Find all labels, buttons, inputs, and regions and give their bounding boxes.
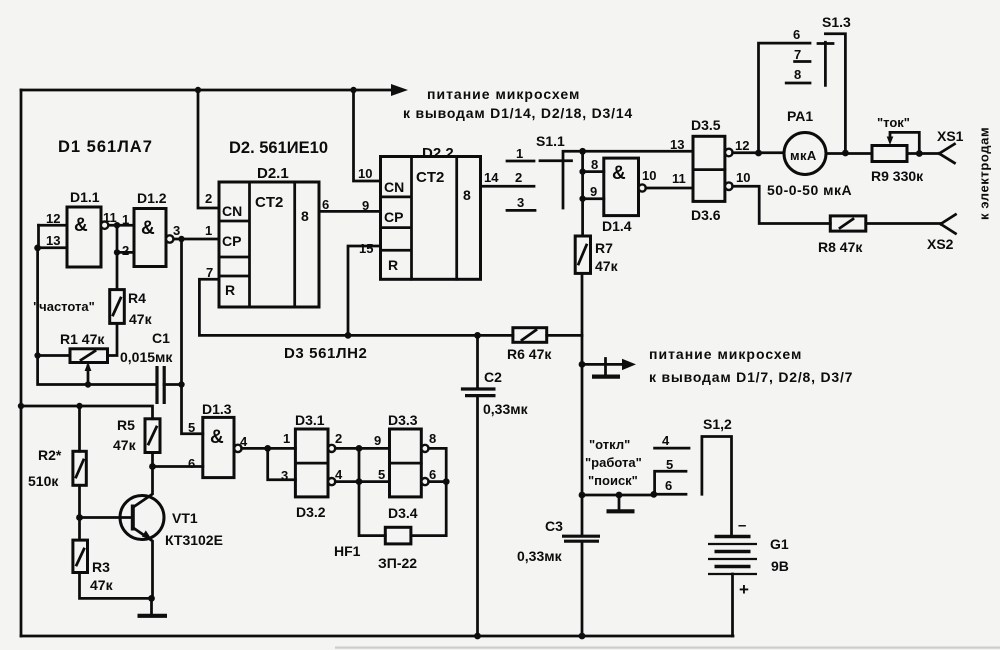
junction S1.2 feed: [579, 492, 586, 499]
counter D2.1: [219, 182, 319, 307]
label питание микросхем top: [403, 86, 633, 121]
junction supply node питание: [579, 361, 586, 368]
VT1 labels: [165, 510, 223, 548]
counter D2.2: [381, 157, 481, 280]
wire R2 top lead: [78, 406, 81, 451]
svg-text:&: &: [210, 427, 224, 448]
wire C1 right to node 3 vertical: [164, 383, 182, 386]
resistor R6 47k: [513, 328, 547, 343]
svg-text:50-0-50 мкА: 50-0-50 мкА: [767, 182, 852, 198]
svg-text:10: 10: [736, 170, 750, 185]
C3 labels: [517, 518, 563, 564]
junction D1.2 pin 2: [114, 249, 120, 255]
junction C2 bottom rail: [474, 633, 481, 640]
junction pins 12-13 tie: [34, 245, 41, 252]
junction ground drop S1.2 wire: [616, 492, 623, 499]
wire to D2.2 pin 10 CN: [354, 90, 381, 181]
D2.1 pin numbers: [205, 191, 329, 280]
svg-text:5: 5: [378, 467, 385, 482]
svg-text:13: 13: [670, 137, 684, 152]
wire D3.1 out to D3.3 pin 9: [335, 447, 389, 450]
wire to D2.1 pin 2 CN: [198, 90, 219, 208]
svg-text:0,33мк: 0,33мк: [483, 401, 529, 417]
wire D1.4 pin 8 input: [583, 170, 604, 173]
wire D2.2 pin 15 stub: [348, 246, 381, 335]
svg-text:5: 5: [666, 457, 673, 472]
svg-text:R4: R4: [128, 290, 146, 306]
junction HF1 left mid: [356, 478, 363, 485]
svg-text:D3.1: D3.1: [295, 412, 325, 428]
svg-text:12: 12: [46, 211, 60, 226]
buzzer HF1: [385, 527, 411, 544]
inverters D3.5 D3.6: [693, 136, 733, 201]
wire D1.4 pin 9 input: [583, 197, 604, 200]
wire R9 to XS1: [907, 152, 939, 155]
wire D3.5 pin 12 to PA1: [733, 151, 784, 154]
wire to D3.2 pin 3: [268, 448, 296, 479]
wire R7 bottom to supply rail: [581, 273, 584, 364]
svg-text:"работа": "работа": [585, 455, 642, 470]
junction R rail pin15: [345, 332, 352, 339]
svg-text:1: 1: [122, 212, 129, 227]
svg-text:D2.2: D2.2: [422, 145, 454, 162]
gate D1.4: [604, 158, 646, 216]
S1.2 position labels: [585, 437, 642, 488]
wire D1.1 input pin 12: [39, 224, 68, 227]
scan edge smudge: [335, 647, 1000, 649]
svg-text:&: &: [74, 215, 88, 236]
resistor R1 47k potentiometer: [70, 349, 108, 363]
wire bottom common rail: [21, 635, 733, 638]
svg-text:к выводам D1/14, D2/18, D3/14: к выводам D1/14, D2/18, D3/14: [403, 105, 633, 121]
S1.2 pin numbers: [662, 433, 673, 493]
wire R2 bottom to R3 top: [78, 485, 81, 540]
switch S1.2: [654, 437, 732, 537]
svg-text:8: 8: [463, 187, 471, 203]
wire PA1 to R9: [826, 152, 872, 155]
wire vertical to R4 top: [116, 225, 119, 289]
svg-text:9В: 9В: [771, 558, 789, 574]
svg-text:"ток": "ток": [877, 115, 910, 130]
svg-text:&: &: [141, 218, 155, 239]
svg-text:6: 6: [188, 456, 195, 471]
wire D1.2 pin 2 stub: [117, 251, 134, 254]
svg-text:2: 2: [205, 191, 212, 206]
junction D1.4 pin 9: [579, 196, 585, 202]
wire D2.1 pin 7 R rail to R6: [199, 279, 513, 335]
resistor R4 47k: [110, 290, 125, 324]
junction R1 left: [34, 352, 40, 358]
resistor R9 330k potentiometer: [872, 132, 919, 161]
D3.5 D3.6 pin numbers: [670, 137, 750, 186]
wire feedback vertical to C1 left: [38, 248, 157, 385]
S1.1 pin numbers: [515, 146, 524, 210]
svg-text:9: 9: [374, 433, 381, 448]
svg-text:D2.1: D2.1: [257, 165, 289, 182]
svg-text:2: 2: [515, 170, 522, 185]
svg-text:11: 11: [672, 171, 686, 186]
ground common bar at VT1 emitter: [138, 614, 168, 618]
svg-text:14: 14: [484, 170, 499, 185]
svg-text:CN: CN: [384, 179, 404, 195]
svg-text:XS2: XS2: [927, 236, 954, 252]
junction collector node: [149, 463, 156, 470]
svg-text:КТ3102Е: КТ3102Е: [165, 532, 223, 548]
svg-text:R7: R7: [595, 240, 613, 256]
wire R8 to XS2: [866, 222, 941, 225]
svg-text:1: 1: [205, 223, 212, 238]
wire D3.3 out right vertical: [429, 448, 447, 481]
svg-text:CT2: CT2: [255, 194, 283, 211]
junction base node: [76, 514, 83, 521]
junction S1.2 pin6: [650, 491, 657, 498]
wire emitter ground stem: [150, 598, 153, 614]
junction pin4 fanout: [264, 445, 271, 452]
svg-text:R6 47к: R6 47к: [507, 346, 552, 362]
wire C2 vertical: [476, 335, 479, 636]
meter PA1 microammeter: [784, 133, 826, 175]
wire left bus to R5 top: [21, 406, 153, 419]
wire D1.1 output to D1.2 pin 1: [108, 224, 134, 227]
svg-text:D3.3: D3.3: [388, 412, 418, 428]
ground common bar S1.2: [607, 509, 635, 513]
junction R rail C2: [474, 332, 481, 339]
svg-text:10: 10: [642, 168, 656, 183]
svg-text:D1.1: D1.1: [70, 189, 100, 205]
junction left bus feed: [18, 403, 24, 409]
wire node3 vertical down to D1.3 pin 5: [182, 239, 203, 434]
wire D2.1 pin 6 to D2.2 pin 9: [319, 210, 381, 213]
connector XS1: [939, 144, 954, 163]
D1.3 pin numbers: [188, 420, 248, 471]
wire HF1 right vertical: [411, 482, 446, 536]
svg-text:3: 3: [517, 195, 524, 210]
junction top bus / D2.1 CN: [195, 87, 201, 93]
transistor VT1: [120, 467, 164, 599]
svg-text:мкА: мкА: [790, 148, 817, 163]
capacitor C3 0.33uF: [562, 536, 600, 541]
R5 labels: [113, 417, 137, 453]
wire D3.4 out: [429, 480, 447, 483]
svg-text:ЗП-22: ЗП-22: [378, 555, 417, 571]
wire left bus: [20, 90, 23, 636]
svg-text:&: &: [612, 163, 626, 184]
wire D1.3 output pin 4: [242, 447, 296, 450]
gate D1.3: [203, 417, 242, 477]
junction node pin3: [178, 236, 184, 242]
svg-text:D1.4: D1.4: [602, 218, 632, 234]
R7 labels: [595, 240, 619, 274]
wire питание arrow mid: [582, 359, 636, 375]
svg-text:2: 2: [122, 243, 129, 258]
wire D1.2 output pin 3 to D2.1 pin 1 CP: [173, 238, 219, 241]
svg-text:8: 8: [301, 208, 309, 224]
wire S1.1 to D3.5 pin 13: [583, 150, 693, 153]
svg-text:47к: 47к: [113, 437, 137, 453]
D1.2 pin numbers: [122, 212, 180, 258]
svg-text:S1.1: S1.1: [536, 133, 565, 149]
inverters D3.1 D3.2: [295, 429, 335, 497]
svg-text:8: 8: [429, 431, 436, 446]
R2 labels: [28, 447, 62, 489]
svg-text:6: 6: [429, 467, 436, 482]
svg-text:D2. 561ИЕ10: D2. 561ИЕ10: [229, 139, 328, 157]
capacitor C2 0.33uF: [461, 389, 496, 396]
svg-text:R: R: [225, 282, 235, 298]
junction PA1 right: [842, 150, 849, 157]
junction R1 wiper / C1 wire: [85, 381, 91, 387]
svg-text:8: 8: [591, 157, 598, 172]
svg-text:D3.2: D3.2: [296, 504, 326, 520]
junction C3 bottom rail: [579, 633, 586, 640]
wire D1.4 output to D3.6 pin 11: [646, 187, 693, 190]
svg-text:питание микросхем: питание микросхем: [427, 86, 580, 102]
wire vertical node to D1.4 and R7: [581, 151, 584, 236]
wire R3 bottom to emitter node: [80, 573, 152, 599]
C2 labels: [483, 369, 529, 417]
resistor R5 47k: [145, 419, 160, 453]
svg-text:CP: CP: [222, 233, 241, 249]
svg-text:510к: 510к: [28, 473, 59, 489]
svg-text:–: –: [738, 517, 746, 534]
label питание микросхем mid: [649, 346, 853, 385]
svg-text:G1: G1: [770, 536, 789, 552]
svg-text:47к: 47к: [595, 258, 619, 274]
svg-text:CP: CP: [384, 209, 403, 225]
svg-text:11: 11: [103, 210, 117, 225]
svg-text:47к: 47к: [90, 577, 114, 593]
wire D2.2 pin 14 output: [481, 185, 534, 188]
svg-text:D3.5: D3.5: [691, 117, 721, 133]
svg-text:к электродам: к электродам: [977, 127, 992, 220]
svg-text:4: 4: [662, 433, 670, 448]
D3.3 D3.4 pin numbers: [374, 431, 436, 482]
svg-text:R: R: [388, 257, 398, 273]
junction D1.4 pin 8: [579, 168, 585, 174]
wire top supply bus: [21, 84, 408, 96]
gate D1.1: [67, 207, 108, 267]
svg-text:"частота": "частота": [33, 299, 95, 314]
D2.2 pin numbers: [358, 166, 499, 256]
svg-text:4: 4: [240, 434, 248, 449]
svg-text:5: 5: [188, 420, 195, 435]
svg-text:10: 10: [358, 166, 372, 181]
wire D3.6 pin 10 to R8: [733, 186, 831, 223]
svg-text:D3 561ЛН2: D3 561ЛН2: [284, 345, 367, 362]
junction top bus / D2.2 CN: [350, 87, 356, 93]
switch S1.3: [759, 34, 846, 153]
svg-text:1: 1: [516, 146, 523, 161]
R4 labels: [128, 290, 153, 327]
resistor R2 510k: [73, 451, 86, 485]
D3.1 D3.2 pin numbers: [281, 431, 343, 483]
svg-text:C1: C1: [152, 330, 170, 346]
S1.3 pin numbers: [793, 27, 801, 82]
battery G1 9V: [708, 537, 757, 637]
svg-text:6: 6: [322, 197, 329, 212]
junction HF1 right: [443, 478, 450, 485]
wire ground stem S1.2: [618, 495, 621, 510]
svg-text:D3.4: D3.4: [388, 505, 418, 521]
svg-text:13: 13: [46, 233, 60, 248]
svg-text:к выводам D1/7, D2/8, D3/7: к выводам D1/7, D2/8, D3/7: [649, 369, 853, 385]
wire D1.1 input pin 13: [37, 246, 67, 249]
D1.4 pin numbers: [590, 157, 656, 199]
svg-text:47к: 47к: [129, 311, 153, 327]
gate D1.2: [134, 209, 173, 267]
svg-text:R3: R3: [92, 559, 110, 575]
svg-text:R9 330к: R9 330к: [871, 168, 924, 184]
wire R6 right to R7 vertical: [547, 334, 582, 337]
svg-text:2: 2: [335, 431, 342, 446]
wire supply vertical to C3: [581, 364, 584, 636]
svg-text:VT1: VT1: [172, 510, 198, 526]
svg-text:"откл": "откл": [589, 437, 630, 452]
resistor R8 47k: [830, 216, 866, 231]
svg-text:3: 3: [173, 223, 180, 238]
svg-text:6: 6: [793, 27, 800, 42]
svg-text:7: 7: [206, 265, 213, 280]
svg-text:S1,2: S1,2: [703, 416, 732, 432]
svg-text:C3: C3: [545, 518, 563, 534]
svg-text:1: 1: [283, 431, 290, 446]
junction S1.1 common node: [579, 148, 586, 155]
svg-text:15: 15: [359, 241, 373, 256]
svg-text:4: 4: [335, 467, 343, 482]
wire R1 wiper arrow: [85, 362, 92, 385]
svg-text:6: 6: [665, 478, 672, 493]
wire R5 bottom to collector node: [151, 453, 154, 467]
capacitor C1 0.015uF: [157, 366, 164, 404]
C1 labels: [120, 330, 173, 365]
wire base lead VT1: [80, 516, 133, 519]
D1.1 pin numbers: [46, 210, 117, 248]
wire R4 bottom to R1 right: [108, 323, 118, 355]
svg-text:питание микросхем: питание микросхем: [649, 346, 802, 362]
resistor R7 47k: [575, 236, 590, 273]
wire collector node to D1.3 pin 6: [153, 465, 203, 468]
G1 labels: [738, 517, 789, 599]
svg-text:D1.3: D1.3: [202, 401, 232, 417]
wire R1 left lead: [38, 354, 70, 357]
connector XS2: [941, 215, 956, 234]
junction HF1 left top: [356, 445, 363, 452]
svg-text:PA1: PA1: [787, 108, 813, 124]
svg-text:7: 7: [794, 47, 801, 62]
svg-text:8: 8: [794, 67, 801, 82]
wire input bracket D1.1: [37, 225, 40, 248]
svg-text:0,33мк: 0,33мк: [517, 548, 563, 564]
svg-text:D1.2: D1.2: [137, 190, 167, 206]
svg-text:D3.6: D3.6: [691, 207, 721, 223]
R3 labels: [90, 559, 114, 593]
svg-text:R5: R5: [117, 417, 135, 433]
junction emitter node: [148, 595, 155, 602]
resistor R3 47k: [73, 540, 88, 572]
svg-text:S1.3: S1.3: [822, 14, 851, 30]
wire to S1.2 pin 6: [582, 494, 654, 497]
HF1 labels: [334, 543, 417, 571]
svg-text:XS1: XS1: [937, 128, 964, 144]
svg-text:R2*: R2*: [38, 447, 62, 463]
svg-text:"поиск": "поиск": [588, 473, 638, 488]
svg-text:D1 561ЛА7: D1 561ЛА7: [58, 138, 153, 156]
svg-text:+: +: [739, 580, 749, 599]
svg-text:C2: C2: [484, 369, 502, 385]
junction C1 right: [178, 381, 184, 387]
switch S1.1: [507, 151, 583, 210]
svg-text:0,015мк: 0,015мк: [120, 349, 173, 365]
svg-text:9: 9: [590, 184, 597, 199]
wire D3.2 out to D3.4 pin 5: [335, 480, 389, 483]
inverters D3.3 D3.4: [390, 429, 429, 497]
junction R2 branch: [76, 403, 82, 409]
svg-text:9: 9: [362, 198, 369, 213]
svg-text:R1 47к: R1 47к: [60, 331, 105, 347]
ground common bar mid: [592, 375, 620, 379]
wire HF1 left vertical: [359, 448, 385, 535]
svg-text:CN: CN: [222, 203, 242, 219]
junction on pin11-1 wire: [114, 222, 120, 228]
svg-text:CT2: CT2: [416, 169, 444, 186]
junction PA1 left: [755, 150, 762, 157]
junction R9 wiper tie: [916, 150, 923, 157]
svg-text:R8 47к: R8 47к: [818, 239, 863, 255]
svg-text:12: 12: [735, 138, 749, 153]
svg-text:HF1: HF1: [334, 543, 361, 559]
